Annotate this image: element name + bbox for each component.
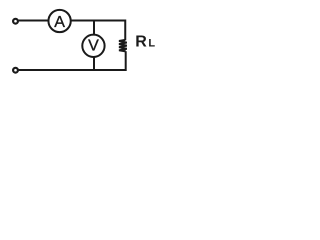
- svg-text:V: V: [88, 37, 99, 54]
- svg-text:A: A: [54, 14, 65, 31]
- resistor RL (zigzag): [119, 40, 127, 52]
- ammeter U1 (circle): [48, 10, 70, 32]
- svg-text:R: R: [135, 34, 147, 51]
- voltmeter U2 (circle): [82, 35, 104, 57]
- wire: top terminal to ammeter: [19, 20, 50, 22]
- svg-text:L: L: [148, 38, 155, 50]
- wire: voltmeter branch upper (node tap on top wire): [93, 21, 95, 36]
- wire: resistor bottom to bottom wire: [125, 51, 127, 71]
- wire: ammeter to top-right corner, down to resistor: [71, 21, 126, 41]
- wire: voltmeter branch lower: [93, 57, 95, 71]
- wire: bottom terminal to bottom-right corner: [19, 69, 127, 71]
- terminal T2 (bottom-left open circle): [13, 68, 18, 73]
- terminal T1 (top-left open circle): [13, 19, 18, 24]
